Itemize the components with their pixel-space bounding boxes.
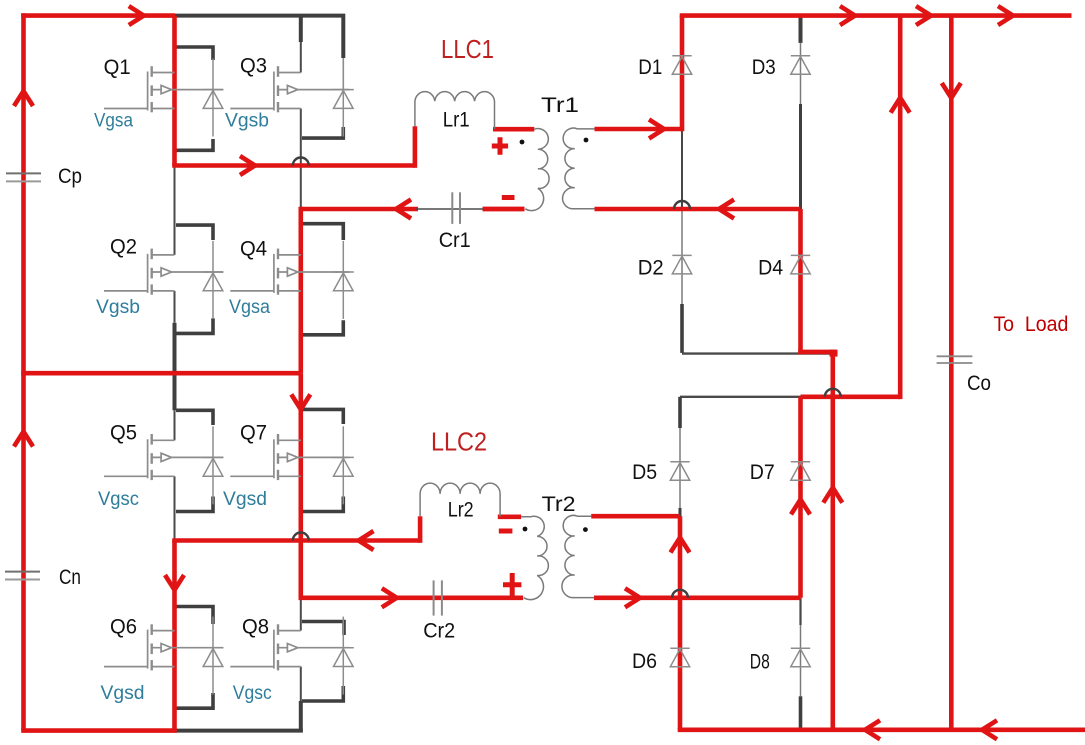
wire leg2 Q7 red bus xyxy=(298,373,303,598)
wire D5 leg tick xyxy=(679,508,682,517)
wire Q6 diode top stub xyxy=(176,607,213,625)
wire D4 bottom to junction xyxy=(798,350,835,355)
arrow D6 leg up xyxy=(671,538,690,553)
wire Lr2 output to Tr2 primary top xyxy=(498,514,521,519)
svg-text:Q4: Q4 xyxy=(240,238,267,261)
svg-text:Tr2: Tr2 xyxy=(542,493,576,516)
wire node1 line xyxy=(172,163,415,168)
wire D3 leg thick xyxy=(799,104,802,209)
wire rect2 top rail xyxy=(680,396,801,398)
diode Q7 body xyxy=(333,426,354,504)
arrow node2 line left xyxy=(359,531,374,550)
wire Q5 diode top stub xyxy=(176,410,213,425)
svg-text:Vgsc: Vgsc xyxy=(98,489,139,510)
wire leg2 Q3 source bus xyxy=(300,109,302,210)
wire leg1 Q2 drain bus xyxy=(174,166,176,255)
diode Q8 body xyxy=(333,617,354,695)
wire Lr2 input stub xyxy=(418,516,423,543)
wire Q6 diode bottom stub xyxy=(176,693,213,708)
inductor Lr2 xyxy=(420,483,500,516)
wire left rail xyxy=(21,13,26,730)
capacitor Cr1 xyxy=(452,192,460,224)
wire D3 top stub xyxy=(799,16,803,43)
svg-text:Q7: Q7 xyxy=(240,422,267,445)
diode Q4 body xyxy=(333,241,354,319)
wire Cr1 thin line xyxy=(416,208,483,210)
wire leg1 Q5 bus thick xyxy=(173,373,177,410)
arrow left rail upper xyxy=(14,91,33,106)
wire leg2 Q4 red bus xyxy=(298,207,303,374)
wire Q2 diode bottom stub xyxy=(176,318,213,333)
diode Q6 body xyxy=(203,617,224,695)
svg-text:Vgsa: Vgsa xyxy=(229,297,270,318)
svg-text:Vgsb: Vgsb xyxy=(225,111,269,132)
transistor Q6 xyxy=(104,624,223,670)
wire D4 leg red xyxy=(798,209,803,354)
transistor Q2 xyxy=(104,249,223,295)
svg-text:Co: Co xyxy=(967,372,991,395)
wire leg2 Q8 source bus xyxy=(300,667,302,701)
arrow Q4 leg down xyxy=(291,394,310,409)
arrow node1 line xyxy=(240,156,255,175)
svg-text:Q3: Q3 xyxy=(240,55,267,78)
wire top rail dark segment xyxy=(175,16,343,58)
diode D2 xyxy=(672,255,691,274)
transformer Tr2 secondary dot xyxy=(583,527,588,532)
diode D6 xyxy=(670,648,689,667)
arrow mid 832 up xyxy=(823,488,842,503)
capacitor Cn xyxy=(5,572,40,580)
wire leg1 Q2 source bus xyxy=(174,291,176,323)
svg-text:D8: D8 xyxy=(750,651,770,674)
svg-text:Cp: Cp xyxy=(58,165,82,188)
svg-text:Cr2: Cr2 xyxy=(423,620,455,643)
svg-text:Q8: Q8 xyxy=(242,616,269,639)
arrow D7 leg up xyxy=(791,499,810,514)
transformer Tr2 secondary winding xyxy=(562,515,594,597)
svg-text:Lr2: Lr2 xyxy=(448,498,474,521)
transformer Tr1 primary winding xyxy=(525,129,549,211)
wire mid rail xyxy=(21,371,301,376)
svg-text:Vgsd: Vgsd xyxy=(101,683,145,704)
diode Q1 body xyxy=(203,59,224,137)
node plus LLC2 xyxy=(503,573,521,597)
node B hop Q7-Q8 bus over node2 line xyxy=(293,533,309,541)
wire bottom rail right xyxy=(678,727,1085,732)
arrow top rail left xyxy=(129,6,144,25)
wire Tr2 secondary bottom line xyxy=(594,595,801,600)
wire Q2 diode top stub xyxy=(176,225,213,240)
arrow top rail right 3 xyxy=(998,6,1013,25)
wire D5 leg xyxy=(679,428,681,508)
transistor Q5 xyxy=(104,434,223,480)
svg-text:D6: D6 xyxy=(632,650,657,673)
wire bottom-left rail red xyxy=(21,728,177,733)
wire leg2 Q8 drain bus xyxy=(300,598,302,631)
svg-text:D1: D1 xyxy=(638,56,662,79)
transistor Q4 xyxy=(230,249,349,295)
transformer Tr2 primary dot xyxy=(523,527,528,532)
wire leg1 Q1 red bus xyxy=(172,16,177,166)
arrow Q6 leg down xyxy=(165,575,184,590)
transformer Tr1 primary dot xyxy=(520,140,525,145)
svg-text:Q1: Q1 xyxy=(104,56,131,79)
svg-text:Q6: Q6 xyxy=(110,616,137,639)
svg-text:D2: D2 xyxy=(638,257,664,280)
wire rect1 bottom rail xyxy=(682,352,830,354)
transformer Tr1 secondary winding xyxy=(563,128,595,209)
svg-text:Vgsd: Vgsd xyxy=(223,489,267,510)
wire LLC1 return red segment right of Cr1 xyxy=(483,207,525,212)
wire rect2 top red extension xyxy=(801,394,901,399)
diode Q2 body xyxy=(203,241,224,319)
wire mid vertical 832 xyxy=(830,352,835,730)
transistor Q8 xyxy=(230,624,349,670)
wire D1 leg below junction xyxy=(681,129,683,209)
capacitor Cp xyxy=(6,173,41,181)
wire D1 leg red xyxy=(680,16,685,132)
svg-text:To Load: To Load xyxy=(993,313,1068,336)
wire leg2 Q3 drain bus xyxy=(300,42,302,73)
wire Q7 diode top stub xyxy=(302,409,343,424)
node plus LLC1 xyxy=(492,137,508,155)
svg-text:D5: D5 xyxy=(632,461,657,484)
node minus LLC2 xyxy=(499,529,513,534)
diode Q3 body xyxy=(333,59,354,137)
svg-text:Q2: Q2 xyxy=(110,236,137,259)
diode D7 xyxy=(791,462,810,481)
wire leg1 Q6 red bus xyxy=(172,541,177,731)
wire Q3 drain thick stub xyxy=(299,16,303,42)
svg-text:D7: D7 xyxy=(750,461,775,484)
transistor Q1 xyxy=(104,66,223,112)
transformer Tr1 secondary dot xyxy=(584,138,589,143)
wire node2 line xyxy=(172,538,420,543)
arrow top rail right 1 xyxy=(840,6,855,25)
arrow top rail right 2 xyxy=(916,6,931,25)
diode D1 xyxy=(672,56,691,75)
wire Q5 diode bottom stub xyxy=(176,497,213,512)
wire D5 top stub xyxy=(678,397,682,428)
transistor Q3 xyxy=(230,66,349,112)
wire Q4 diode top stub xyxy=(302,224,343,240)
diode D8 xyxy=(791,648,810,667)
svg-text:D4: D4 xyxy=(758,257,783,280)
svg-text:Tr1: Tr1 xyxy=(541,94,579,117)
arrow LLC2 return right xyxy=(382,588,397,607)
node D hop D5-D6 leg over secondary2 bottom line xyxy=(672,590,688,598)
wire D8 bottom stub xyxy=(799,696,803,731)
svg-text:LLC2: LLC2 xyxy=(431,427,487,457)
arrow secondary1 bottom xyxy=(719,200,734,219)
node A hop Q3-Q4 bus over node1 line xyxy=(293,158,309,166)
svg-text:Vgsc: Vgsc xyxy=(233,683,272,704)
svg-text:Q5: Q5 xyxy=(110,422,137,445)
wire D7 leg red xyxy=(798,397,803,598)
wire Q7 diode bottom stub xyxy=(302,497,343,512)
wire top rail left red xyxy=(21,13,175,18)
arrow bottom rail 1 left xyxy=(865,720,880,739)
svg-text:LLC1: LLC1 xyxy=(441,34,494,64)
wire right rail 951 xyxy=(949,16,954,730)
arrow bottom rail 2 left xyxy=(982,720,997,739)
svg-text:Vgsa: Vgsa xyxy=(94,111,133,132)
arrow secondary1 top xyxy=(649,120,664,139)
node C hop D1-D2 leg over secondary1 bottom line xyxy=(674,201,690,209)
node minus LLC1 xyxy=(502,195,515,200)
arrow right rail down xyxy=(942,83,961,98)
wire leg1 Q5 source bus xyxy=(174,476,176,540)
node E hop 832 vertical over rect2 top line xyxy=(825,389,841,397)
diode D5 xyxy=(670,462,689,481)
wire leg1 Q5 drain bus xyxy=(174,410,176,440)
wire D8 leg tick xyxy=(799,598,801,625)
wire vertical 900 xyxy=(898,16,903,400)
diode D4 xyxy=(791,255,810,274)
diode D3 xyxy=(791,56,810,75)
svg-text:Vgsb: Vgsb xyxy=(96,297,140,318)
wire D6 leg red xyxy=(678,516,683,730)
capacitor Co xyxy=(937,356,973,363)
arrow vertical 900 up xyxy=(891,98,910,113)
wire Q1 diode bottom stub xyxy=(176,139,213,150)
wire D8 leg xyxy=(800,625,802,696)
wire D2 leg upper xyxy=(681,209,683,304)
transistor Q7 xyxy=(230,434,349,480)
wire Tr1 primary bottom red segment xyxy=(483,207,525,212)
wire LLC1 return left segment xyxy=(301,207,418,212)
wire leg2 Q8 bottom thick xyxy=(299,701,303,732)
transformer Tr2 primary winding xyxy=(521,516,548,599)
svg-text:Cn: Cn xyxy=(59,566,81,589)
svg-text:Cr1: Cr1 xyxy=(439,229,471,252)
arrow secondary2 bottom right xyxy=(625,588,640,607)
node junction dot at 832/353 xyxy=(830,350,838,357)
wire Q1 diode top stub xyxy=(176,47,213,60)
wire Q8 diode top stub xyxy=(302,622,344,636)
capacitor Cr2 xyxy=(434,580,442,615)
wire top rail right red xyxy=(680,13,1072,18)
wire LLC2 return line xyxy=(299,595,524,600)
wire leg1 Q2 bus thick xyxy=(173,323,177,373)
wire Q3 diode bottom stub xyxy=(302,127,343,138)
wire D3 leg xyxy=(800,43,802,104)
wire Tr2 secondary top line xyxy=(591,514,680,519)
wire bottom-left rail dark xyxy=(175,729,303,733)
diode Q5 body xyxy=(203,426,224,504)
wire Q8 diode bottom stub xyxy=(302,686,343,701)
svg-text:Lr1: Lr1 xyxy=(443,108,470,131)
svg-text:D3: D3 xyxy=(752,56,776,79)
wire Lr1 output to Tr1 primary top xyxy=(493,127,534,132)
wire Tr1 secondary top line xyxy=(595,127,683,132)
arrow LLC1 return xyxy=(396,200,411,219)
wire D2 bottom thick xyxy=(680,304,684,353)
wire Q4 diode bottom stub xyxy=(302,320,343,335)
inductor Lr1 xyxy=(415,92,495,129)
wire Tr1 secondary bottom line xyxy=(595,207,801,212)
arrow left rail lower xyxy=(14,432,33,447)
wire Lr1 input stub xyxy=(413,126,418,168)
wire Q3 diode to rail xyxy=(342,58,344,90)
